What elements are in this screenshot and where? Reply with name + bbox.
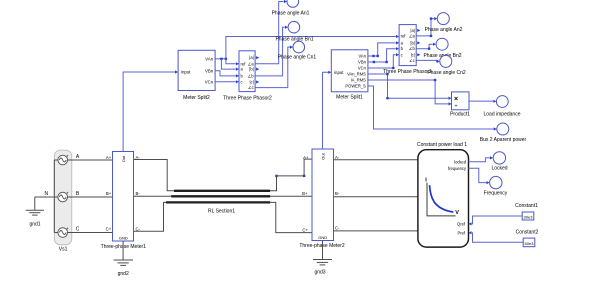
AC source A (Vs1 phase A) <box>58 155 68 165</box>
wire meter1 B- to meter2 B+ <box>134 195 312 197</box>
junction dot angle-b corner <box>428 48 430 50</box>
AC source C (Vs1 phase C) <box>58 228 68 238</box>
transmission line RL Section1 phase B <box>171 195 270 197</box>
wire meter2 ground <box>322 241 324 260</box>
svg-text:Out: Out <box>320 152 325 159</box>
svg-text:B-: B- <box>136 191 141 196</box>
wire VAn_RMS to Product1 x-input <box>368 74 448 98</box>
scope Phase angle Bn2 <box>436 38 448 50</box>
svg-text:input: input <box>181 70 191 75</box>
wire meter1 ground <box>122 241 124 260</box>
svg-text:VCn: VCn <box>205 79 214 84</box>
arrow Phase angle Bn2 <box>433 43 436 46</box>
svg-text:GND: GND <box>318 235 327 240</box>
junction dot VAn ref-branch <box>225 58 227 60</box>
arrow Phase angle Cn2 <box>437 60 440 63</box>
arrow Phase angle An2 <box>434 17 437 20</box>
wire N (neutral) <box>35 196 55 198</box>
block Three-phase Meter2 <box>312 149 334 241</box>
scope Phase angle An2 <box>437 13 449 25</box>
svg-text:Locked: Locked <box>491 166 507 172</box>
svg-text:Constant1: Constant1 <box>515 203 538 209</box>
scope Phase angle Cn2 <box>440 55 452 67</box>
wire phasor2 angle-a to Phase angle An1 <box>255 2 283 64</box>
arrow phasor1 a <box>396 41 399 44</box>
arrow Phase angle Cn1 <box>290 46 293 49</box>
wire phasor2 angle-b to Phase angle Bn1 <box>255 27 285 76</box>
transmission line RL Section1 phase C <box>166 201 270 203</box>
wire VBn to phasor2 b <box>215 71 236 76</box>
svg-text:POWER_S: POWER_S <box>345 84 366 89</box>
svg-text:A-: A- <box>335 155 340 160</box>
scope Locked <box>493 152 505 164</box>
icon load V-I curve axes <box>427 183 456 216</box>
svg-text:input: input <box>334 70 344 75</box>
svg-text:|a|: |a| <box>249 55 253 60</box>
svg-text:Phase angle An1: Phase angle An1 <box>272 11 310 17</box>
svg-text:∠c: ∠c <box>409 58 415 63</box>
pin stub |b| phasor2 <box>256 68 259 71</box>
transmission line RL Section1 phase A <box>174 190 270 192</box>
source group Vs1 container <box>54 150 72 245</box>
wire load frequency to Frequency scope <box>469 168 487 182</box>
svg-text:Meter Split1: Meter Split1 <box>336 95 363 101</box>
block Meter Split1 <box>331 50 368 92</box>
arrow phasor1 b <box>396 47 399 50</box>
arrow Pref input <box>469 231 472 234</box>
arrow Phase angle An1 <box>284 0 287 3</box>
wire source C stubs <box>54 232 112 234</box>
arrow Load impedance <box>493 100 496 103</box>
block Meter Split2 <box>178 50 215 90</box>
svg-text:|c|: |c| <box>250 80 254 85</box>
svg-text:Constant power load 1: Constant power load 1 <box>417 142 467 148</box>
wire source B stubs <box>54 196 112 198</box>
wire meter2 B- to load <box>334 196 418 198</box>
junction dot VAn_RMS corner2 <box>386 97 388 99</box>
block Constant1 <box>522 212 534 220</box>
svg-text:Phase angle Cn2: Phase angle Cn2 <box>427 70 466 76</box>
wire load locked to Locked scope <box>469 158 490 162</box>
svg-text:C+: C+ <box>302 228 308 233</box>
wire VAn to phasor2 a <box>221 59 235 69</box>
svg-text:Phase angle Bn1: Phase angle Bn1 <box>275 36 313 42</box>
svg-text:Phase angle Cn1: Phase angle Cn1 <box>278 55 317 61</box>
wire VCn to phasor2 c <box>215 81 236 83</box>
svg-text:VBn: VBn <box>358 60 366 65</box>
junction dot angle-a corner1 <box>430 35 432 37</box>
svg-text:B+: B+ <box>106 191 112 196</box>
pin stub |a| phasor1 <box>417 29 420 32</box>
arrow Qref input <box>469 222 472 225</box>
svg-text:frequency: frequency <box>448 166 467 171</box>
arrow into Meter Split2 input <box>175 70 178 73</box>
arrow Locked <box>490 156 493 159</box>
svg-text:|a|: |a| <box>410 28 414 33</box>
wire source A stubs <box>54 159 112 161</box>
wire VAn long line to phasor1 ref <box>226 37 396 59</box>
wire Product1 to Load impedance <box>469 100 493 102</box>
svg-text:Frequency: Frequency <box>484 191 508 197</box>
svg-text:VBn: VBn <box>205 68 214 73</box>
wire source bus <box>53 160 55 233</box>
svg-text:Three Phase Phasor1: Three Phase Phasor1 <box>383 69 432 75</box>
svg-text:C-: C- <box>335 226 340 231</box>
wire line C to meter2 C+ <box>270 202 312 232</box>
wire meter2 Out to Meter Split1 input <box>323 72 329 149</box>
arrow Product1 x-input <box>448 97 451 100</box>
svg-text:IA_RMS: IA_RMS <box>351 78 367 83</box>
wire VCn split1 to phasor1 c <box>368 55 396 68</box>
wire Constant2 to Pref <box>472 233 523 243</box>
svg-text:∠c: ∠c <box>248 85 254 90</box>
svg-text:VAn_RMS: VAn_RMS <box>347 72 366 77</box>
junction dot A wire 2 <box>303 175 305 177</box>
svg-text:VAn: VAn <box>358 54 366 59</box>
svg-text:C: C <box>76 227 80 233</box>
svg-text:Product1: Product1 <box>450 111 470 117</box>
scope Bus 2 Aparent power <box>497 123 509 135</box>
svg-text:+: + <box>66 191 69 196</box>
svg-text:c: c <box>241 79 243 84</box>
wire phasor1 angle-b to Phase angle Bn2 <box>416 44 433 49</box>
wire meter1 C- to line <box>134 202 166 231</box>
svg-text:÷: ÷ <box>455 103 458 109</box>
wire VBn split1 to phasor1 b <box>368 49 396 62</box>
svg-text:locked: locked <box>454 159 467 164</box>
wire POWER_S to Bus 2 Aparent power <box>368 86 494 129</box>
svg-text:A+: A+ <box>303 155 309 160</box>
icon load V-I curve <box>430 185 454 212</box>
junction dot A wire <box>275 175 277 177</box>
scope Load impedance <box>496 96 508 108</box>
arrow phasor2 c <box>236 80 239 83</box>
block Product1 <box>452 92 470 110</box>
svg-text:GND: GND <box>119 235 128 240</box>
junction dot VBn split1 <box>373 61 375 63</box>
wire VAn out split2 <box>215 58 226 60</box>
svg-text:C-: C- <box>136 226 141 231</box>
wire VAn to phasor2 ref <box>226 59 236 64</box>
block Three Phase Phasor1 <box>399 25 416 66</box>
svg-text:∠a: ∠a <box>248 61 255 66</box>
svg-text:+: + <box>66 154 69 159</box>
junction dot VAn a-branch <box>220 58 222 60</box>
arrow Bus 2 Aparent power <box>494 127 497 130</box>
scope Phase angle An1 <box>287 0 299 7</box>
pin stub |b| phasor1 <box>417 41 420 44</box>
block Constant2 <box>523 238 535 247</box>
svg-text:c: c <box>401 52 403 57</box>
junction dot VAn split1 <box>372 55 374 57</box>
arrow phasor1 ref <box>396 35 399 38</box>
scope Frequency <box>490 176 502 188</box>
pin stub |c| phasor2 <box>256 80 259 83</box>
svg-text:Vs1: Vs1 <box>59 246 68 252</box>
svg-text:N: N <box>44 191 48 197</box>
svg-text:gnd2: gnd2 <box>118 271 129 277</box>
arrow phasor2 a <box>236 68 239 71</box>
ground gnd3 <box>313 260 332 265</box>
ground gnd1 <box>26 197 44 215</box>
svg-text:Meter Split2: Meter Split2 <box>183 95 210 101</box>
junction dot VAn corner <box>377 55 379 57</box>
svg-text:Qref: Qref <box>457 222 466 227</box>
arrow Frequency <box>486 181 489 184</box>
svg-text:×: × <box>454 96 458 103</box>
arrow phasor1 c <box>396 53 399 56</box>
svg-text:Load impedance: Load impedance <box>484 111 521 117</box>
svg-text:gnd3: gnd3 <box>314 270 325 276</box>
junction dot angle-a corner2 <box>430 17 432 19</box>
junction dot VCn corner <box>392 67 394 69</box>
arrow Product1 divide-input <box>448 102 451 105</box>
svg-text:∠b: ∠b <box>248 73 255 78</box>
arrow Phase angle Bn1 <box>285 26 288 29</box>
svg-text:|c|: |c| <box>411 52 415 57</box>
wire line A to meter2 A+ <box>270 159 312 191</box>
wire VAn split1 to phasor1 a <box>368 43 396 56</box>
svg-text:B+: B+ <box>302 191 308 196</box>
scope Phase angle Bn1 <box>288 21 300 33</box>
svg-text:Out: Out <box>121 155 126 162</box>
pin stub |c| phasor1 <box>417 53 420 56</box>
svg-text:50e3: 50e3 <box>525 241 535 246</box>
wire meter1 Out to Meter Split2 input <box>123 72 175 152</box>
wire meter1 A- to line <box>134 160 174 191</box>
wire meter2 A- to load <box>334 159 418 161</box>
svg-text:∠b: ∠b <box>409 46 416 51</box>
wire IA_RMS to Product1 divide-input <box>368 80 448 104</box>
svg-text:V: V <box>455 210 459 216</box>
ground gnd2 <box>114 260 134 265</box>
svg-text:B-: B- <box>335 191 340 196</box>
svg-text:|b|: |b| <box>249 67 253 72</box>
svg-text:RL Section1: RL Section1 <box>208 208 235 214</box>
pin stub |a| phasor2 <box>256 56 259 59</box>
svg-text:A+: A+ <box>106 155 112 160</box>
svg-text:|b|: |b| <box>410 40 414 45</box>
wire phasor1 angle-c to Phase angle Cn2 <box>416 60 437 61</box>
svg-text:30e3: 30e3 <box>524 214 534 219</box>
wire Constant1 to Qref <box>472 216 522 224</box>
svg-text:Pref: Pref <box>457 230 465 235</box>
junction dot IA_RMS corner <box>434 79 436 81</box>
wire meter2 C- to load <box>334 230 418 232</box>
svg-text:VAn: VAn <box>205 56 213 61</box>
block Three-phase Meter1 <box>113 152 134 242</box>
block Three Phase Phasor2 <box>239 51 255 92</box>
scope Phase angle Cn1 <box>293 41 305 53</box>
junction dot VAn_RMS corner <box>386 73 388 75</box>
wire phasor1 angle-a to Phase angle An2 <box>416 19 434 36</box>
arrow phasor2 ref <box>236 62 239 65</box>
svg-text:∠a: ∠a <box>409 33 416 38</box>
junction dot VBn corner <box>385 61 387 63</box>
svg-text:VCn: VCn <box>358 66 367 71</box>
arrow into Meter Split1 input <box>328 71 331 74</box>
svg-text:+: + <box>66 226 69 231</box>
svg-text:Bus 2 Aparent power: Bus 2 Aparent power <box>480 137 527 143</box>
arrow phasor2 b <box>236 74 239 77</box>
AC source B (Vs1 phase B) <box>58 192 68 202</box>
svg-text:Constant2: Constant2 <box>516 230 539 236</box>
svg-text:Three Phase Phasor2: Three Phase Phasor2 <box>223 96 272 102</box>
svg-text:Phase angle An2: Phase angle An2 <box>425 27 463 33</box>
wire phasor2 angle-c to Phase angle Cn1 <box>255 47 290 88</box>
svg-text:C+: C+ <box>106 226 112 231</box>
block Constant power load 1 <box>418 150 469 247</box>
svg-text:gnd1: gnd1 <box>29 221 40 227</box>
